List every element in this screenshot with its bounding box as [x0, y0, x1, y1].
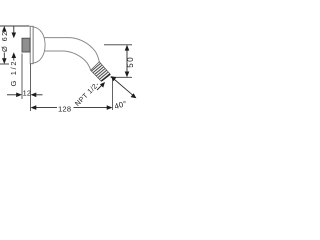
dimension 12 arrow left: [31, 93, 37, 98]
dimension Ø62 arrow down: [2, 58, 7, 64]
outlet thread band (hatched): [91, 62, 111, 81]
dimension G1/2 arrow down: [12, 33, 17, 39]
outlet end face edge: [101, 74, 110, 81]
dimension 50 arrow down: [125, 72, 130, 78]
dimension G1/2 leader lines: [13, 26, 15, 60]
flange dome: [33, 27, 45, 63]
wire extension line x=30.5 (plate face): [30, 64, 32, 111]
dimension 128 line left: [35, 107, 58, 109]
dimension 12 arrow right: [16, 93, 22, 98]
dimension 40° arrow at outlet tip: [111, 76, 117, 81]
svg-text:128: 128: [58, 104, 71, 113]
wire extension line x=112.5 (outlet tip vertical): [112, 78, 114, 110]
leader NPT 1/2 line: [97, 84, 104, 91]
dimension Ø62 arrow up: [2, 26, 7, 32]
dimension G1/2 arrow up: [12, 52, 17, 58]
dimension 128 line right: [74, 107, 109, 109]
shower arm tube bottom outline: [45, 51, 91, 70]
dimension 12 right tail: [36, 94, 43, 96]
dimension 40° diagonal line: [114, 79, 134, 96]
leader NPT 1/2 arrow: [100, 82, 105, 88]
wall thread stub G1/2 (gray): [22, 38, 30, 52]
wire top extension line (flange top): [0, 25, 30, 27]
escutcheon plate (wall plate edge-on): [30, 26, 33, 63]
dimension 12 left tail: [7, 94, 18, 96]
dimension 50 line: [126, 48, 128, 74]
shower arm tube top outline: [45, 38, 100, 62]
wire extension line x=22 (wall face): [21, 54, 23, 100]
dimension 128 arrow right: [107, 105, 113, 110]
dimension 128 arrow left: [31, 105, 37, 110]
dimension Ø62 line: [3, 29, 5, 59]
svg-text:G 1/2: G 1/2: [9, 60, 18, 87]
svg-text:12: 12: [23, 89, 32, 98]
svg-text:50: 50: [126, 56, 135, 68]
wire extension line y=44.8 (inlet axis): [104, 44, 132, 46]
wire extension line y=77.3 (outlet tip horizontal): [111, 76, 133, 78]
dimension 40° arrow far end: [131, 93, 137, 98]
dimension 50 arrow up: [125, 45, 130, 51]
svg-text:Ø 62: Ø 62: [0, 30, 9, 52]
wire bottom extension line (flange bottom): [0, 63, 9, 65]
